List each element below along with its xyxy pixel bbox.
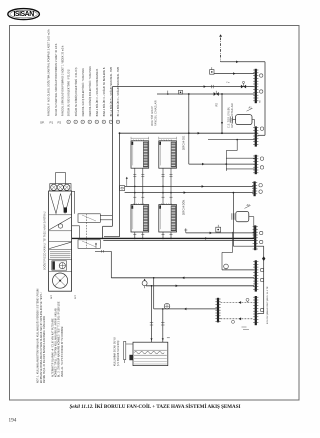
svg-text:FANCOIL SİRKÜLASYON POMPASI 2: FANCOIL SİRKÜLASYON POMPASI 2 ADET 1 YED… bbox=[62, 45, 65, 116]
svg-text:P2: P2 bbox=[58, 121, 62, 125]
AHU supply fan bbox=[53, 273, 68, 288]
svg-text:IP2: IP2 bbox=[215, 102, 218, 107]
fan-coil FC4 bbox=[159, 203, 177, 232]
expansion line (dash-dot riser) bbox=[219, 34, 222, 62]
svg-text:FANCOIL DÖNÜŞ KOLEKTÖRÜ / TAZE: FANCOIL DÖNÜŞ KOLEKTÖRÜ / TAZE HAVA bbox=[89, 66, 92, 117]
header H6 bbox=[253, 260, 258, 291]
svg-text:FANCOIL GİDİŞ KOLEKTÖRÜ / TAZE: FANCOIL GİDİŞ KOLEKTÖRÜ / TAZE HAVA bbox=[82, 68, 85, 117]
pipe K: lower return main bbox=[111, 276, 254, 279]
duct silencer box 1 bbox=[78, 214, 112, 223]
svg-text:FANCOIL CİHAZLARI: FANCOIL CİHAZLARI bbox=[155, 100, 158, 126]
pipe H: upper return to H5 bbox=[184, 228, 254, 234]
boiler feed pipe 1 bbox=[150, 285, 153, 342]
caption bbox=[70, 403, 241, 410]
header H2 bbox=[253, 126, 258, 146]
fan-coil FC3 bbox=[131, 203, 149, 232]
dimension marks above fan-coils bbox=[131, 137, 177, 140]
legend pump tags SP P1 P2 bbox=[40, 29, 65, 125]
svg-text:∅m: ∅m bbox=[226, 81, 230, 84]
svg-text:FKT: FKT bbox=[75, 294, 77, 299]
svg-text:SP.: SP. bbox=[40, 121, 45, 125]
svg-text:EKİPMAN VE BORULAMAYA UYGUN OL: EKİPMAN VE BORULAMAYA UYGUN OLARAK SEÇİM… bbox=[40, 292, 43, 383]
tank side fitting bbox=[124, 341, 133, 363]
dashed branch with check valve 1 bbox=[221, 298, 254, 304]
pressure gauge on pipe L bbox=[142, 279, 147, 289]
riser 2 (fresh air plant return) bbox=[104, 132, 120, 236]
header H7 bbox=[253, 296, 258, 325]
header H1 tags bbox=[260, 74, 263, 93]
pipe A: top supply to riser bbox=[221, 60, 265, 63]
pipe L: lower supply main bbox=[146, 284, 254, 287]
ISISAN logo bbox=[8, 9, 40, 20]
duct silencer box 2 bbox=[78, 240, 100, 249]
svg-text:SOĞUK SU DÖNÜŞ KOLEKTÖRÜ / FCL: SOĞUK SU DÖNÜŞ KOLEKTÖRÜ / FCL DİŞ bbox=[75, 67, 78, 116]
svg-text:Şekil 11.12. İKİ BORULU FAN-CO: Şekil 11.12. İKİ BORULU FAN-COİL + TAZE … bbox=[70, 403, 241, 410]
header H4 bbox=[252, 181, 257, 196]
header H3 bbox=[253, 155, 258, 174]
label: oda tipi fancoil grubu bbox=[151, 100, 157, 126]
notes text block bbox=[37, 288, 64, 383]
drawing frame bbox=[10, 26, 300, 401]
pipe M: to riser isolation bar bbox=[154, 308, 217, 311]
svg-text:A2: A2 bbox=[247, 203, 251, 207]
pipe I2: parallel return bbox=[103, 240, 254, 242]
svg-text:NOT: 1. KULLANILAN BÜTÜN VANAL: NOT: 1. KULLANILAN BÜTÜN VANALAR, KULLAN… bbox=[37, 288, 40, 383]
pipe D with valve IP2 and sensor bbox=[157, 90, 254, 107]
pipe G: fan-coil supply main bbox=[125, 191, 254, 194]
AHU casing (TB taze hava santrali) bbox=[49, 191, 72, 291]
thermometer gauge on pipe M bbox=[164, 303, 170, 309]
thermostat box on pipe F bbox=[120, 177, 128, 191]
isolation bar (riser sleeve) bbox=[215, 298, 220, 323]
vent arrow at silencer bbox=[95, 243, 97, 249]
pipe E: upper fan-coil supply main bbox=[120, 132, 258, 135]
svg-text:ALTERNATİF OLARAK +4 °C'LİK VA: ALTERNATİF OLARAK +4 °C'LİK VAV KAT PLTD… bbox=[51, 318, 54, 377]
label kullanma suyu bbox=[113, 337, 119, 366]
fresh air duct above AHU bbox=[56, 173, 66, 184]
pipe B with thermometer box bbox=[210, 67, 255, 75]
wire: pump drop to distribution bbox=[221, 94, 223, 133]
header H7 tag bbox=[260, 308, 263, 311]
small marks below H7 bbox=[242, 327, 250, 329]
svg-text:VERİL AL. TA 4*3 PİCCOKAD BİTİ: VERİL AL. TA 4*3 PİCCOKAD BİTİVİ KOMBİNİ bbox=[61, 326, 64, 377]
fan-coil FC2 bbox=[159, 140, 177, 169]
AHU bottom tags bbox=[51, 294, 77, 299]
svg-text:FANCOIL P. %30 GLİKOL SOĞUTMA: FANCOIL P. %30 GLİKOL SOĞUTMA SANTRAL PO… bbox=[48, 29, 51, 116]
fan-coil row2 return stubs bbox=[133, 232, 172, 239]
svg-text:BINA 1 BÖLÜM 3 + SICAK SU BESL: BINA 1 BÖLÜM 3 + SICAK SU BESLEME B. bbox=[96, 68, 99, 116]
wire: drop from pipe D to H3 branch bbox=[188, 93, 190, 164]
pipe from AHU to drop bbox=[95, 250, 111, 278]
svg-text:KULLANMA SICAK SUYU: KULLANMA SICAK SUYU bbox=[113, 337, 116, 366]
svg-text:KÖMBEZİ TİPİLLİ 'TOPTAN KULLAN: KÖMBEZİ TİPİLLİ 'TOPTAN KULLANILABİLİR. … bbox=[55, 308, 58, 377]
pipe I: main supply (thick) bbox=[66, 237, 254, 240]
wire: drop from pipe G to header H5 bbox=[233, 193, 254, 247]
pipes into H3 bbox=[226, 158, 254, 169]
svg-text:ISISAN: ISISAN bbox=[13, 11, 34, 18]
AHU filter section bbox=[49, 194, 72, 215]
AHU eliminator stripes bbox=[49, 252, 72, 260]
AHU humidifier with pump bbox=[49, 261, 72, 272]
AHU coil section bbox=[49, 242, 72, 250]
damper actuator dashed link bbox=[86, 214, 88, 249]
svg-text:Ş.S SOĞUK SU GİRİŞİ: Ş.S SOĞUK SU GİRİŞİ bbox=[117, 340, 120, 366]
svg-text:BFİ+1 BÖLÜM 6 + SOĞUK HAVA BES: BFİ+1 BÖLÜM 6 + SOĞUK HAVA BESL. HVB bbox=[117, 66, 120, 116]
fan-coil FC1 bbox=[131, 140, 149, 169]
svg-text:BINA 1 BÖLÜM 4 + SOĞUK SU BESL: BINA 1 BÖLÜM 4 + SOĞUK SU BESLEME B. bbox=[103, 66, 106, 116]
wire: drop x153.7 bbox=[153, 277, 155, 309]
legend numbered pipe list bbox=[67, 66, 120, 124]
wire: right side drop H5 to H7 bbox=[257, 246, 265, 313]
svg-text:KOLON ŞEMASI BKZ ŞEKİL 14.1 TB: KOLON ŞEMASI BKZ ŞEKİL 14.1 TB bbox=[266, 286, 269, 324]
svg-text:A1: A1 bbox=[249, 106, 253, 110]
pump A1 bbox=[230, 106, 254, 127]
riser 1 (fresh air plant supply) bbox=[103, 87, 113, 239]
label: c.s. top grubu bbox=[227, 103, 233, 128]
svg-text:194: 194 bbox=[9, 418, 17, 424]
AHU inlet dampers bbox=[50, 184, 71, 191]
pump A2 bbox=[232, 203, 254, 239]
svg-text:2BFC04 DÖN.: 2BFC04 DÖN. bbox=[183, 199, 186, 215]
svg-text:SOĞUT/PICCO KANALI 'TB' TAZE H: SOĞUT/PICCO KANALI 'TB' TAZE HAVA SANTRA… bbox=[44, 211, 47, 270]
fan-coil row2 supply stubs bbox=[133, 192, 172, 205]
svg-text:BL. 2. ZİRVERUP NAVKARE KÖMBEZ: BL. 2. ZİRVERUP NAVKARE KÖMBEZİ TESTİT 2… bbox=[58, 301, 61, 377]
header H5 bbox=[253, 225, 258, 250]
header H4 tags bbox=[259, 184, 262, 194]
header H1 bbox=[253, 69, 258, 103]
riser pipe down right side bbox=[258, 62, 266, 136]
svg-text:SOĞUK SU GİDİŞ KOLEKTÖRÜ / FCL: SOĞUK SU GİDİŞ KOLEKTÖRÜ / FCL DİŞ bbox=[68, 69, 71, 116]
fan-coil row1 connection stubs bbox=[133, 168, 172, 192]
boiler feed pipe 2 bbox=[161, 308, 170, 342]
thermometer box near pump A2 bbox=[216, 225, 221, 232]
pipe F: fan-coil return main bbox=[125, 185, 254, 188]
svg-text:SICAK SU SANTRAL SİRKÜLASYON P: SICAK SU SANTRAL SİRKÜLASYON POMPASI 2 A… bbox=[55, 43, 58, 116]
pipe C with control valve bbox=[112, 81, 254, 88]
svg-text:SKT: SKT bbox=[51, 294, 53, 299]
svg-text:DEVRE YEŞİL 20 KG/CM2 BASINCA: DEVRE YEŞİL 20 KG/CM2 BASINCA DAYANIKLI … bbox=[43, 316, 46, 383]
hot water storage tank (boyler) bbox=[133, 342, 168, 365]
header H2 tag bbox=[260, 127, 263, 130]
header H6 top stub with gauge bbox=[222, 232, 254, 270]
AHU heating coil valve bbox=[58, 191, 79, 239]
pipe: mid branch to header H3 bbox=[189, 163, 255, 166]
svg-text:2BFC04 GİD.: 2BFC04 GİD. bbox=[183, 135, 186, 150]
dashed branch with check valve 2 bbox=[221, 317, 254, 323]
svg-text:FANCOIL CİHAZLARI: FANCOIL CİHAZLARI bbox=[231, 103, 234, 128]
header H6 tags bbox=[260, 268, 263, 281]
header H3 tags bbox=[260, 157, 263, 169]
pipe into H2 (branch w) bbox=[208, 139, 255, 171]
AHU mixing damper section bbox=[49, 217, 72, 231]
svg-text:P1: P1 bbox=[50, 121, 54, 125]
header H5 tags bbox=[260, 231, 263, 243]
